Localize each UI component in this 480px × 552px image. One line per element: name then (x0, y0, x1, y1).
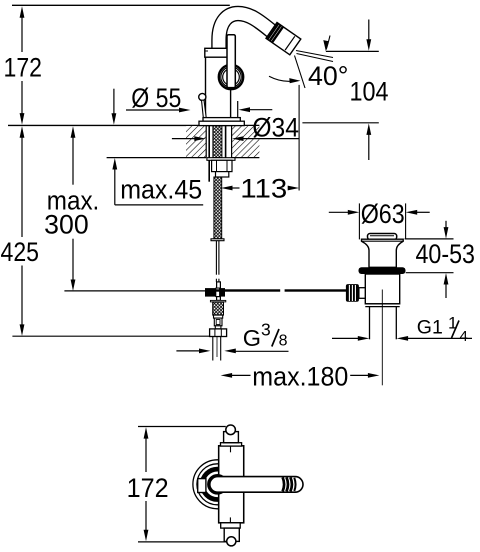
svg-text:Ø34: Ø34 (252, 113, 299, 143)
dim Ø34 (hole diameter) (172, 113, 299, 143)
tee fitting (217, 282, 221, 288)
plan spout collar (208, 475, 226, 493)
plan north lever neck (224, 432, 239, 443)
aerator at spout end (266, 23, 301, 55)
plan south ball (227, 537, 236, 546)
hole wall left (205, 125, 207, 157)
top reference line (spout top) (12, 4, 230, 6)
svg-text:40°: 40° (308, 61, 349, 91)
dim max.45 (deck thickness) (112, 89, 204, 205)
seal ring (black) (359, 267, 406, 274)
deck / mounting surface line (8, 124, 259, 126)
svg-text:max.180: max.180 (252, 361, 348, 391)
dim max.180 (221, 361, 380, 391)
plan body rect (219, 446, 244, 523)
pop-up waste plug cap (368, 234, 397, 240)
base plate (199, 121, 244, 125)
svg-text:425: 425 (1, 237, 40, 267)
svg-text:104: 104 (350, 76, 389, 106)
waste body (365, 274, 399, 304)
label G1 1/4 (332, 314, 472, 346)
supply braid lower (210, 300, 225, 302)
plan aerator bands (283, 477, 285, 491)
svg-text:8: 8 (279, 333, 288, 350)
svg-text:113: 113 (240, 173, 287, 203)
plan north lever ball (226, 425, 236, 435)
handle escutcheon circles (219, 65, 243, 89)
svg-text:Ø63: Ø63 (361, 199, 405, 229)
faucet body (206, 57, 231, 118)
flexible hose braid (214, 177, 222, 239)
body step (365, 303, 399, 305)
threaded shank through deck (braided) (213, 126, 222, 158)
deck underside line (107, 157, 206, 159)
svg-text:G1: G1 (417, 317, 443, 339)
mounting nut (212, 160, 232, 171)
deck hatch left block (186, 126, 206, 157)
svg-text:Ø 55: Ø 55 (131, 83, 181, 113)
plan spout tube (210, 477, 303, 493)
hose tube upper (215, 241, 217, 275)
plan body redraw over rings (219, 446, 244, 523)
svg-text:172: 172 (127, 473, 169, 503)
plan north lever: collar band (221, 443, 242, 446)
spout tube (219, 14, 272, 55)
supply nut (210, 329, 227, 337)
G3/8 threaded pipe (212, 337, 214, 361)
pop-up rod knob (199, 93, 206, 100)
plan south: collar band (221, 523, 241, 528)
pop-up rod stick (202, 100, 207, 117)
washer under deck (207, 158, 235, 161)
dim 172 (left) (4, 6, 43, 124)
dim 40° (spout angle) (269, 36, 349, 92)
svg-text:300: 300 (44, 209, 88, 239)
label G 3/8 (176, 320, 288, 354)
svg-text:G: G (243, 325, 261, 351)
hose end cap (211, 239, 224, 241)
dim 113 (spout projection) (221, 85, 299, 203)
plan west rod tab (198, 479, 206, 493)
horizontal pull rod to drain (207, 289, 280, 291)
dim Ø55 (base diameter) (126, 83, 272, 113)
hole wall right (231, 125, 233, 157)
right-side rod line (237, 101, 239, 118)
pop-up waste flange (362, 239, 404, 267)
drain knurled knob (346, 284, 359, 302)
plan escutcheon rings (193, 460, 242, 509)
dim Ø63 (waste flange) (329, 199, 430, 240)
mounting stud left (208, 126, 210, 182)
dim 104 (spout height) (302, 20, 388, 161)
svg-text:172: 172 (4, 53, 43, 83)
hose tube lower stub (215, 279, 217, 282)
dim 425 (1, 126, 210, 336)
reducer below nut (216, 172, 229, 177)
mounting stud right (225, 126, 227, 158)
svg-text:4: 4 (460, 328, 468, 345)
base upper lip (203, 118, 240, 122)
plan south neck (224, 528, 239, 541)
drain centerline (381, 290, 383, 386)
body top cap (205, 48, 232, 57)
dim max.300 (44, 126, 207, 291)
tailpiece pipe G1 1/4 (369, 307, 371, 340)
svg-text:1: 1 (448, 314, 457, 333)
svg-text:max.45: max.45 (120, 174, 202, 204)
handle lever stick (227, 35, 235, 88)
compression fitting (214, 315, 223, 318)
svg-text:3: 3 (261, 320, 271, 340)
deck hatch right block (232, 126, 259, 157)
svg-text:40-53: 40-53 (416, 239, 476, 269)
dim 40-53 (clamping range) (405, 221, 475, 298)
plan dim 172 (127, 427, 228, 542)
knob connector (359, 288, 367, 299)
